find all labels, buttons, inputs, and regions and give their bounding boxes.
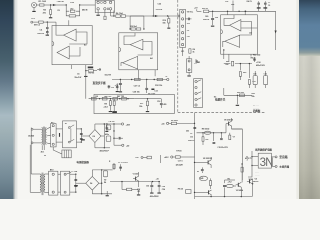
svg-text:后级板: 后级板 [253, 109, 261, 113]
svg-text:55u/7W: 55u/7W [37, 33, 44, 35]
svg-text:C35: C35 [253, 74, 256, 76]
svg-text:R12 15k: R12 15k [155, 85, 163, 87]
svg-text:4Ω: 4Ω [198, 61, 201, 64]
svg-text:CK 12V: CK 12V [109, 121, 116, 123]
svg-text:电源开关: 电源开关 [215, 98, 226, 102]
svg-text:1u6: 1u6 [215, 17, 218, 19]
svg-text:1045: 1045 [200, 177, 204, 180]
svg-text:C58: C58 [162, 186, 165, 188]
svg-text:C52: C52 [146, 185, 149, 187]
svg-text:R1 CA2: R1 CA2 [39, 0, 47, 3]
svg-text:R2 5600: R2 5600 [171, 120, 178, 122]
svg-text:扬声器保护电路: 扬声器保护电路 [255, 147, 272, 151]
svg-text:R0 5k4: R0 5k4 [131, 25, 138, 28]
svg-text:25u/70V: 25u/70V [188, 140, 195, 142]
svg-text:C18 25u/70V: C18 25u/70V [217, 147, 228, 149]
svg-text:450uF/50V²: 450uF/50V² [100, 150, 110, 153]
svg-text:R4 CA4: R4 CA4 [116, 12, 124, 15]
svg-text:55u/1W: 55u/1W [75, 77, 82, 79]
svg-text:C27 C2: C27 C2 [134, 86, 141, 88]
svg-text:+15: +15 [187, 36, 190, 38]
svg-text:-15: -15 [187, 30, 190, 32]
svg-text:450u: 450u [105, 133, 109, 136]
svg-text:(28u/)2R: (28u/)2R [176, 164, 184, 166]
svg-text:C18: C18 [157, 101, 160, 103]
svg-text:+C ▭ +13.8: +C ▭ +13.8 [118, 162, 128, 164]
svg-text:R63: R63 [243, 72, 246, 74]
svg-text:C54: C54 [162, 188, 165, 191]
svg-text:٩٨ ·······: ٩٨ ······· [253, 104, 260, 107]
svg-text:R R10: R R10 [176, 151, 181, 153]
svg-text:D4: D4 [90, 182, 92, 185]
svg-text:C32: C32 [225, 1, 228, 3]
svg-text:D4: D4 [104, 181, 106, 184]
svg-text:R59 25k: R59 25k [237, 92, 245, 94]
svg-text:40:1: 40:1 [41, 151, 45, 154]
svg-text:R61: R61 [226, 61, 229, 63]
svg-text:C36: C36 [264, 74, 267, 76]
svg-text:+45V: +45V [164, 156, 169, 159]
svg-text:+CP: +CP [31, 18, 36, 20]
svg-text:ER C2: ER C2 [34, 24, 41, 26]
svg-text:V3 5W14: V3 5W14 [236, 189, 244, 192]
svg-text:R16: R16 [163, 20, 166, 22]
svg-text:········: ········ [255, 172, 259, 174]
svg-text:25: 25 [44, 155, 46, 157]
svg-text:TX VOL: TX VOL [187, 12, 194, 14]
svg-text:R4: R4 [193, 48, 195, 51]
svg-text:+CB: +CB [70, 2, 74, 4]
svg-text:+45V: +45V [126, 123, 131, 126]
svg-text:D4 C9: D4 C9 [247, 0, 252, 3]
svg-text:+62: +62 [205, 139, 208, 141]
svg-text:BT1: BT1 [51, 122, 54, 124]
svg-text:C17 5: C17 5 [178, 160, 183, 162]
svg-text:+C2: +C2 [111, 87, 114, 89]
svg-text:C13: C13 [190, 136, 193, 138]
svg-text:D4: D4 [93, 135, 95, 138]
svg-text:R07 55: R07 55 [88, 73, 94, 75]
svg-text:C40: C40 [205, 15, 208, 18]
svg-text:1M0 TX2: 1M0 TX2 [104, 96, 111, 98]
svg-text:2W500: 2W500 [253, 181, 259, 183]
svg-text:电源滤波器: 电源滤波器 [77, 160, 90, 164]
svg-text:C5: C5 [190, 133, 192, 135]
svg-text:10: 10 [268, 5, 270, 7]
svg-text:C28 15k: C28 15k [133, 92, 141, 94]
svg-text:··········: ·········· [255, 176, 260, 178]
svg-text:C33: C33 [252, 81, 255, 83]
svg-text:55u/7W: 55u/7W [203, 19, 210, 21]
svg-text:455uF/16V: 455uF/16V [256, 64, 266, 67]
svg-text:至音箱: 至音箱 [279, 155, 287, 159]
svg-text:RE 55kΩ: RE 55kΩ [202, 129, 210, 131]
svg-text:5k: 5k [193, 52, 195, 54]
svg-text:主扬声器: 主扬声器 [279, 165, 289, 169]
svg-text:'1: '1 [193, 63, 194, 65]
svg-text:R62 25Ω: R62 25Ω [253, 55, 261, 57]
svg-text:73N/7W: 73N/7W [57, 1, 64, 3]
svg-text:+7k2: +7k2 [228, 181, 232, 183]
svg-text:R16 55: R16 55 [202, 8, 208, 10]
svg-text:55u/7W: 55u/7W [105, 75, 112, 77]
svg-text:直流伏平衡: 直流伏平衡 [93, 81, 107, 85]
svg-text:R47 TX2: R47 TX2 [117, 95, 124, 98]
svg-text:V1 490: V1 490 [133, 173, 139, 176]
svg-text:450uF/50V: 450uF/50V [150, 195, 160, 198]
svg-text:S1: S1 [65, 123, 67, 125]
svg-text:C7 15K: C7 15K [71, 171, 78, 173]
svg-text:7uF/7W: 7uF/7W [156, 9, 163, 11]
svg-text:455: 455 [163, 103, 166, 106]
svg-text:VE 2SD14: VE 2SD14 [224, 118, 234, 121]
svg-text:3N: 3N [260, 157, 274, 169]
svg-text:4B3 B: 4B3 B [82, 9, 88, 12]
svg-text:AC220: AC220 [28, 134, 35, 137]
svg-text:+15: +15 [156, 179, 159, 181]
